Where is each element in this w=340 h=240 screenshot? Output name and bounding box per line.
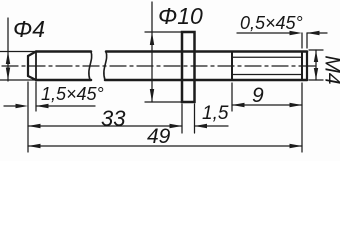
left chamfer diagonal bottom [28,76,36,80]
svg-text:M4: M4 [320,55,340,84]
dim 9: right arrowhead [290,103,303,107]
dim M4: arrow up [314,51,318,63]
svg-text:1,5×45°: 1,5×45° [41,84,104,104]
dim 1,5x45 chamfer: left arrow tail [4,105,23,107]
svg-text:Φ10: Φ10 [158,3,203,29]
thread minor diameter line top [232,56,302,58]
dim Φ10: arrow down [150,89,154,102]
thread start line [231,52,233,81]
dim 9: dimension line [232,104,302,106]
dim 1,5x45 chamfer: extension line at end face [27,82,29,152]
shaft body left section bottom line [36,79,91,82]
dim 1,5x45 chamfer: right arrowhead [36,104,49,108]
svg-text:33: 33 [101,106,126,131]
shaft body right section bottom line [105,79,307,82]
dim 49: dimension line [28,145,302,147]
dim Φ4: arrow up [6,52,10,65]
left end face [27,56,29,76]
dim Φ4: dimension line [7,18,9,81]
dim 9: extension line right [301,83,303,152]
dim 0,5x45 chamfer: left arrowhead [290,31,303,35]
thread minor diameter line bottom [232,74,302,76]
shaft body right section top line [106,50,307,53]
right end face [306,52,308,81]
dim 9: extension line left [231,83,233,111]
centerline (axis, dash-dot) [2,65,319,67]
break line left [89,52,92,81]
dim 1,5x45 chamfer: left arrowhead [16,104,29,108]
dim M4: arrow down [314,68,318,80]
dim Φ10: arrow up [150,32,154,45]
svg-text:0,5×45°: 0,5×45° [240,13,303,33]
flange (collar) [182,32,195,102]
dim 1,5 flange: right arrow tail [195,125,229,127]
dim 33: dimension line [28,125,182,127]
dim 49: left arrowhead [28,144,41,148]
dim 0,5x45 chamfer: extension line at end face [306,33,308,48]
Φ4 extension line bottom [0,79,36,81]
Φ4 extension line top (shaft top line extended to left edge) [0,51,36,53]
dim 49: right arrowhead [290,144,303,148]
dim 0,5x45 chamfer: right arrow tail [307,32,327,34]
svg-text:1,5: 1,5 [202,103,229,124]
left chamfer diagonal top [28,52,36,57]
svg-text:Φ4: Φ4 [13,16,45,42]
shaft body left section top line [36,50,91,53]
dim Φ10: extension line bottom [145,101,182,103]
dim Φ10: dimension line [151,2,153,102]
dim 33: left arrowhead [28,124,41,128]
break line right [104,52,107,81]
svg-text:9: 9 [252,84,264,107]
dim 1,5x45 chamfer: right tail / text underline [36,105,95,107]
dim 33: right arrowhead [170,124,183,128]
dim 1,5 flange: right arrowhead [195,124,208,128]
dim 1,5x45 chamfer: extension line at chamfer [35,82,37,111]
left chamfer line [35,52,37,81]
svg-text:49: 49 [147,125,171,148]
dim M4: dimension line [315,50,317,80]
dim Φ10: extension line top [145,31,182,33]
dim 1,5 flange: extension line right [194,104,196,133]
dim 9: left arrowhead [232,103,245,107]
dim 0,5x45 chamfer: left tail / text underline [237,32,297,34]
dim M4: extension line bottom [309,79,323,81]
dim 1,5 flange: extension line left [181,104,183,133]
dim M4: extension line top [309,49,323,51]
dim 0,5x45 chamfer: extension line at chamfer [301,33,303,48]
dim Φ4: arrow down [6,68,10,81]
dim 0,5x45 chamfer: right arrowhead [307,31,320,35]
right chamfer line [301,52,303,81]
